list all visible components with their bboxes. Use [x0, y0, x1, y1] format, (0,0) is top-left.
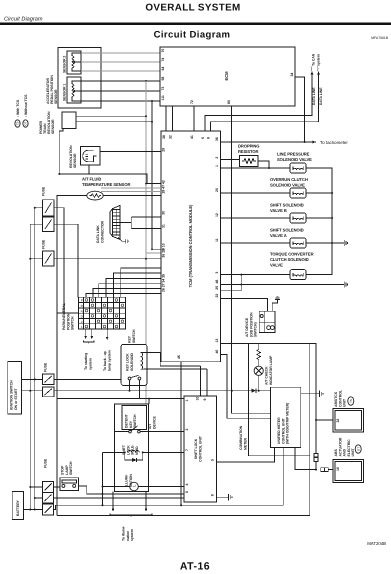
svg-text:73: 73 — [161, 87, 165, 91]
wire shift lock pin9 to unified meter — [206, 369, 208, 396]
wire temp sensor left to illumination bus — [57, 196, 87, 516]
svg-text:34: 34 — [290, 73, 294, 77]
illumination rail bottom — [57, 456, 310, 516]
wire stop lamp switch to shift lock pin 6 — [79, 486, 185, 495]
svg-text:SOLENOID VALVE: SOLENOID VALVE — [270, 183, 305, 188]
wire to starting system arrows — [84, 329, 94, 370]
left power bus B — [29, 224, 31, 509]
svg-text:45: 45 — [177, 355, 181, 359]
wire shift lock solenoid row to control unit pin 7 — [103, 451, 185, 453]
wire fuse F3 feed — [30, 258, 42, 260]
svg-text:FUSE: FUSE — [44, 362, 48, 372]
svg-text:36 10: 36 10 — [162, 249, 166, 258]
svg-text:3: 3 — [215, 272, 219, 274]
wire TCM pin2 to dropping resistor — [221, 159, 240, 161]
svg-text:2: 2 — [215, 157, 219, 159]
line pressure solenoid valve SV1 — [277, 152, 312, 174]
svg-text:11: 11 — [215, 238, 219, 242]
shift solenoid valve A SV4 — [270, 228, 306, 249]
TCM left pin numbers — [162, 148, 166, 292]
svg-text:To tachometer: To tachometer — [320, 140, 348, 145]
svg-text:22: 22 — [215, 294, 219, 298]
svg-text:70: 70 — [161, 49, 165, 53]
svg-text:DATA LINE: DATA LINE — [312, 87, 316, 105]
svg-text:12: 12 — [215, 213, 219, 217]
svg-text:25: 25 — [215, 286, 219, 290]
svg-text:TS: TS — [349, 399, 353, 403]
revolution sensor — [69, 145, 100, 168]
svg-text:10: 10 — [196, 397, 200, 401]
svg-text:BATTERY: BATTERY — [16, 499, 20, 516]
svg-text:SOLENOID: SOLENOID — [130, 353, 134, 371]
svg-text:13: 13 — [215, 339, 219, 343]
svg-text:1: 1 — [185, 400, 189, 402]
svg-text:RESISTOR: RESISTOR — [238, 149, 259, 154]
overrun clutch solenoid valve SV2 — [270, 177, 308, 198]
svg-text:system: system — [88, 358, 92, 370]
svg-text:6: 6 — [185, 491, 189, 493]
svg-text:INDICATOR LAMP: INDICATOR LAMP — [269, 355, 273, 385]
battery — [12, 492, 23, 520]
wire unified meter bottom to ABS row — [295, 448, 316, 470]
svg-text:Circuit Diagram: Circuit Diagram — [4, 16, 43, 23]
left power bus A — [34, 208, 36, 510]
svg-text:ECM: ECM — [224, 71, 229, 81]
svg-text:UNIT: UNIT — [351, 448, 355, 457]
svg-text:system: system — [130, 529, 134, 541]
wire branch to TCM pin 10 — [146, 81, 161, 452]
shift solenoid valve B SV3 — [270, 203, 306, 224]
svg-text:80: 80 — [227, 100, 231, 104]
svg-text:58: 58 — [161, 77, 165, 81]
svg-text:SOLENOID VALVE: SOLENOID VALVE — [277, 157, 312, 162]
svg-text:: With TCS: : With TCS — [16, 99, 20, 117]
wire revolution sensor top to TCM pin29 — [100, 151, 161, 153]
wire TCM pin1 to line pressure solenoid — [221, 167, 290, 169]
svg-text:AT-16: AT-16 — [180, 561, 210, 573]
wire key lock coil to unified meter — [144, 353, 201, 366]
svg-text:system: system — [317, 54, 321, 66]
svg-text:SENSOR: SENSOR — [54, 89, 58, 104]
ground O/D switch — [275, 296, 280, 299]
wire fuse F8 to illumination rail — [54, 505, 56, 509]
svg-text:SWITCH: SWITCH — [71, 316, 75, 330]
data link connector — [96, 205, 120, 243]
svg-text:SWITCH): SWITCH) — [254, 322, 258, 337]
svg-text:72: 72 — [190, 100, 194, 104]
wire shift lock pin8 to ground — [217, 496, 229, 498]
svg-text:2: 2 — [81, 320, 83, 324]
wires A/T device illumination out — [110, 492, 152, 541]
wire TCM top pin38 to ECM — [165, 106, 167, 131]
svg-text:48: 48 — [215, 280, 219, 284]
wire shift lock pin5 to unified meter control — [217, 448, 275, 462]
svg-text:7: 7 — [185, 449, 189, 451]
stop lamp switch S2 — [60, 461, 79, 490]
svg-text:1: 1 — [81, 325, 83, 329]
APS sensor 2 — [63, 51, 82, 74]
wire ECM pin34 to tachometer node — [295, 77, 305, 142]
svg-text:OVERALL SYSTEM: OVERALL SYSTEM — [145, 3, 240, 14]
svg-text:26 27 34 35: 26 27 34 35 — [162, 274, 166, 292]
svg-text:1: 1 — [215, 165, 219, 167]
svg-text:30: 30 — [162, 211, 166, 215]
svg-text:FUSE: FUSE — [42, 239, 46, 249]
ignition switch power source — [8, 362, 22, 414]
svg-text:TS: TS — [16, 122, 20, 126]
wire ECM pin80 down long vertical — [232, 106, 271, 413]
svg-text:MFA7001B: MFA7001B — [371, 36, 389, 40]
svg-text:16: 16 — [336, 467, 340, 471]
wire dropping resistor out — [258, 161, 269, 168]
wire TCM pin13 to ABS units — [221, 344, 316, 454]
svg-text:41: 41 — [190, 135, 194, 139]
wire fuse F1 feed — [35, 207, 43, 209]
svg-text:TEMPERATURE SENSOR: TEMPERATURE SENSOR — [82, 182, 130, 187]
svg-text:Circuit Diagram: Circuit Diagram — [154, 29, 231, 40]
wire key lock contact right to shift lock pin1 — [139, 380, 184, 399]
svg-text:N: N — [81, 309, 83, 313]
svg-text:A/T FLUID: A/T FLUID — [82, 177, 101, 182]
wire PNP left to bus — [57, 312, 79, 314]
junction APS wire branches — [145, 80, 147, 82]
data line labels — [312, 87, 323, 105]
connector J2 inline — [321, 468, 333, 472]
svg-text:VALVE B: VALVE B — [270, 208, 287, 213]
wires APS sensor1 to ECM — [81, 81, 160, 101]
svg-text:P: P — [81, 299, 83, 303]
wires TCM left pins to PNP switch columns — [86, 268, 161, 297]
fuse F4 ignition — [43, 362, 55, 384]
A/T check indicator lamp — [254, 355, 273, 385]
shift lock control unit — [184, 396, 216, 502]
wire long bottom to unified meter — [56, 448, 284, 506]
wire fuse F1 out to PNP area — [54, 208, 64, 313]
svg-text:ON or START: ON or START — [14, 388, 18, 410]
wire shift lock pin1 row from bus — [57, 398, 139, 400]
wire TCM pin11 to shift solenoid A — [221, 242, 290, 244]
svg-text:lamp system: lamp system — [107, 350, 111, 371]
park/neutral position switch S1 — [62, 297, 126, 330]
svg-text:FUSE: FUSE — [44, 458, 48, 468]
dropping resistor R1 — [238, 144, 259, 167]
svg-text:111: 111 — [161, 95, 165, 100]
ECM left pin numbers — [161, 49, 165, 101]
svg-text:SHIFT SOLENOID: SHIFT SOLENOID — [270, 203, 304, 208]
ECM U1 — [160, 47, 295, 106]
TCM transmission control module — [161, 131, 221, 362]
torque converter clutch solenoid valve SV5 — [270, 252, 314, 280]
shift lock control unit pin numbers — [185, 397, 215, 497]
svg-text:CONNECTOR: CONNECTOR — [100, 220, 104, 243]
wire TCM pin20 to overrun clutch solenoid — [221, 192, 290, 194]
connector J1 inline — [314, 454, 318, 471]
header rule — [0, 23, 391, 26]
svg-text:CONTROL UNIT: CONTROL UNIT — [198, 435, 202, 462]
wire ignition to fuse F4 to key lock — [22, 378, 122, 380]
svg-text:32: 32 — [169, 135, 173, 139]
A/T device O/D position switch — [245, 311, 275, 337]
ground shift lock — [229, 494, 232, 500]
wire detention switch to shift lock pin2 — [140, 431, 184, 433]
svg-text:36: 36 — [215, 137, 219, 141]
key lock solenoid unit — [121, 344, 147, 385]
svg-text:(WITH ODO/TRIP METER): (WITH ODO/TRIP METER) — [286, 403, 290, 444]
wire battery to fuses — [23, 486, 42, 511]
svg-text:UNIT: UNIT — [343, 398, 347, 407]
svg-text:CLUTCH SOLENOID: CLUTCH SOLENOID — [270, 257, 309, 262]
svg-text:28 47 42: 28 47 42 — [162, 180, 166, 193]
TCM right pin numbers — [215, 137, 219, 353]
wire fuse F6 to stop lamp switch — [54, 486, 60, 488]
wire key lock contact left — [129, 380, 131, 391]
fuse F6 — [43, 458, 54, 492]
ABS TCS control unit — [333, 389, 363, 432]
svg-text:31: 31 — [162, 224, 166, 228]
svg-text:SENSOR 1: SENSOR 1 — [63, 84, 67, 101]
svg-text:4: 4 — [185, 484, 189, 486]
solenoid return bus — [306, 168, 348, 275]
ABS actuator electric unit — [333, 437, 363, 482]
svg-text:8: 8 — [211, 494, 215, 496]
wire TCM top pin32 to ECM — [172, 106, 174, 131]
svg-text:TCM (TRANSMISSION CONTROL MODU: TCM (TRANSMISSION CONTROL MODULE) — [188, 204, 193, 287]
svg-text:40: 40 — [215, 350, 219, 354]
svg-text:64: 64 — [161, 67, 165, 71]
wires APS sensor2 to ECM — [81, 53, 160, 71]
svg-text:MAT204B: MAT204B — [367, 541, 386, 546]
A/T device box — [115, 404, 157, 492]
APS sensor 1 — [63, 77, 82, 103]
diode D1 — [232, 389, 271, 393]
svg-text:DATA LINE: DATA LINE — [319, 87, 323, 105]
svg-text:2: 2 — [185, 429, 189, 431]
svg-text:: Without TCS: : Without TCS — [24, 94, 28, 117]
svg-text:LINE PRESSURE: LINE PRESSURE — [277, 152, 310, 157]
wire revolution sensor bottom — [58, 165, 161, 183]
fuse F3 — [42, 239, 55, 266]
svg-text:To CAN: To CAN — [312, 53, 316, 66]
wire fuse F2 out to PNP area — [54, 224, 78, 297]
svg-text:VALVE A: VALVE A — [270, 233, 287, 238]
wire TCM pin12 to shift solenoid B — [221, 217, 290, 219]
wire DLC split to TCM pin30 and pin31 — [120, 217, 161, 229]
svg-text:SENSOR: SENSOR — [73, 153, 77, 168]
svg-text:METER: METER — [243, 437, 247, 450]
svg-text:OVERRUN CLUTCH: OVERRUN CLUTCH — [270, 177, 308, 182]
TCM bottom pin numbers — [177, 355, 181, 359]
wire TCM pin48 to ground — [221, 284, 345, 286]
wire TCM pin25 bundle — [221, 274, 243, 291]
key switch label — [128, 329, 136, 343]
svg-text:SENSOR 2: SENSOR 2 — [63, 56, 67, 73]
wire CAN data line 1 from TCM pin5 — [205, 71, 313, 131]
ground unified meter — [320, 391, 323, 397]
legend TCS note — [15, 94, 28, 127]
svg-text:SWITCH: SWITCH — [69, 461, 73, 475]
wire illumination junction — [102, 452, 104, 505]
wires power train sensor — [76, 115, 153, 122]
wire TCM pin45 down — [180, 362, 182, 506]
wire branch to TCM pin 19 — [152, 101, 161, 249]
wire to back-up lamp system arrow — [103, 329, 111, 371]
svg-text:38: 38 — [162, 135, 166, 139]
svg-text:DROPPING: DROPPING — [238, 144, 259, 149]
wire temp sensor right to TCM pins 28 47 42 — [101, 183, 161, 196]
meter resistor R2 — [257, 343, 261, 366]
svg-text:OT: OT — [356, 447, 360, 451]
shift lock solenoid inside A/T device — [122, 444, 144, 462]
svg-text:SWITCH: SWITCH — [132, 329, 136, 343]
svg-text:29: 29 — [162, 148, 166, 152]
illumination lamp inside A/T device — [103, 474, 185, 491]
wire fuse F3 out to TCM — [54, 258, 161, 260]
accelerator pedal position sensor box — [46, 48, 101, 109]
svg-text:20: 20 — [215, 188, 219, 192]
svg-text:9: 9 — [203, 399, 207, 401]
CAN brace and note — [311, 53, 321, 72]
svg-text:8: 8 — [207, 137, 211, 139]
svg-text:DEVICE: DEVICE — [152, 416, 156, 429]
wire ABS branch to pin32 — [316, 419, 333, 421]
svg-text:74: 74 — [161, 58, 165, 62]
svg-text:SENSOR: SENSOR — [51, 119, 55, 134]
fuse F2 upper — [43, 217, 55, 231]
fuse F5 ignition — [43, 387, 55, 397]
wire fuse F2 feed — [30, 223, 42, 225]
wire lamp to junction — [258, 375, 260, 390]
svg-text:5: 5 — [201, 137, 205, 139]
svg-text:VALVE: VALVE — [270, 263, 283, 268]
power train revolution sensor — [39, 111, 76, 134]
svg-text:TORQUE CONVERTER: TORQUE CONVERTER — [270, 252, 314, 257]
unified meter control unit — [271, 387, 301, 447]
wire ECM pin72 down to TCM pin41 — [193, 106, 195, 131]
TCM top pin numbers — [162, 135, 211, 139]
svg-text:5: 5 — [211, 459, 215, 461]
wire shield bus left — [59, 128, 63, 174]
svg-text:FUSE: FUSE — [42, 186, 46, 196]
wire TCM pin22 to O/D position switch — [221, 299, 268, 312]
wire fuse F7 to shift lock battery pin — [54, 497, 185, 499]
wire TCM pin36 to tachometer arrow — [221, 140, 349, 145]
ground data link connector — [118, 237, 129, 243]
fuse F1 upper — [42, 186, 55, 216]
junction tach — [304, 141, 306, 143]
combination meter box — [239, 343, 310, 456]
wire O/D switch to ground — [272, 300, 277, 312]
wire ignition fuse F5 row to A/T device and shift lock pins — [22, 390, 233, 392]
fuse F8 — [43, 504, 54, 515]
svg-text:OT: OT — [24, 121, 28, 125]
wire CAN data line 2 from TCM pin8 — [211, 71, 320, 131]
wire shift lock pin10 up — [199, 366, 201, 396]
wire TCM pin3 to torque converter clutch solenoid — [221, 274, 290, 276]
svg-text:32: 32 — [336, 419, 340, 423]
wire unified meter to ground right — [301, 393, 320, 395]
svg-text:SWITCH: SWITCH — [133, 414, 137, 428]
detention switch inside A/T device — [115, 406, 147, 433]
fuse F7 — [43, 493, 54, 504]
svg-text:SHIFT SOLENOID: SHIFT SOLENOID — [270, 228, 304, 233]
wire TCM pin40 to meter — [221, 355, 271, 419]
A/T fluid temperature sensor — [82, 177, 130, 201]
ground solenoid return — [344, 281, 347, 287]
